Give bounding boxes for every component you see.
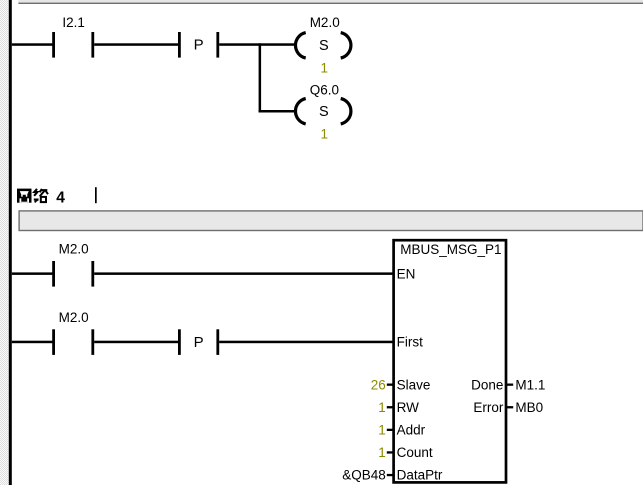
- svg-text:DataPtr: DataPtr: [397, 468, 443, 483]
- svg-text:S: S: [319, 104, 329, 120]
- svg-text:Done: Done: [471, 377, 503, 392]
- svg-text:1: 1: [378, 423, 386, 438]
- wire: contact I2.1 to contact P: [94, 43, 179, 46]
- svg-text:Slave: Slave: [397, 377, 431, 392]
- text cursor: [95, 187, 97, 203]
- svg-text:M2.0: M2.0: [310, 15, 340, 30]
- svg-text:First: First: [397, 335, 423, 350]
- wire: contact M2.0 to contact P (First row): [94, 341, 179, 344]
- svg-text:S: S: [319, 38, 329, 54]
- wire: contact P to coil M2.0: [219, 43, 295, 46]
- pin Error tick: [507, 406, 513, 408]
- contact P (positive edge): [178, 32, 219, 58]
- svg-text:&QB48: &QB48: [342, 468, 386, 483]
- contact P (First row): [178, 329, 219, 355]
- contact M2.0 (First row): [52, 329, 94, 355]
- function box MBUS_MSG_P1: [394, 240, 506, 482]
- svg-text:M2.0: M2.0: [59, 242, 89, 257]
- svg-text:MBUS_MSG_P1: MBUS_MSG_P1: [400, 242, 501, 257]
- editor left margin (dithered): [0, 0, 9, 485]
- branch wire to coil Q6.0: [259, 110, 296, 113]
- network title glyph 络: [34, 189, 48, 203]
- contact I2.1 (normally open): [52, 32, 94, 58]
- svg-text:1: 1: [320, 61, 328, 76]
- network 4 comment bar: [19, 211, 643, 231]
- wire: contact M2.0 to box EN: [94, 272, 393, 275]
- svg-text:RW: RW: [397, 400, 420, 415]
- network 3 separator bar (bottom sliver at top edge): [18, 0, 643, 4]
- contact M2.0 (EN row): [52, 261, 94, 287]
- wire: contact P to box First: [219, 341, 393, 344]
- svg-text:MB0: MB0: [515, 400, 543, 415]
- svg-text:M1.1: M1.1: [515, 377, 545, 392]
- wire: rail to contact I2.1: [12, 43, 53, 46]
- wire: rail to contact M2.0 (First row): [12, 341, 53, 344]
- pin Count tick: [387, 451, 394, 453]
- svg-text:M2.0: M2.0: [59, 310, 89, 325]
- branch junction vertical wire: [259, 43, 262, 112]
- svg-text:Q6.0: Q6.0: [310, 83, 339, 98]
- coil S M2.0: [295, 33, 350, 58]
- wire: rail to contact M2.0 (EN row): [12, 272, 53, 275]
- pin Addr tick: [387, 429, 394, 431]
- svg-text:Count: Count: [397, 445, 433, 460]
- svg-text:P: P: [194, 334, 204, 351]
- left power rail: [9, 0, 12, 485]
- pin Slave tick: [387, 384, 394, 386]
- svg-text:Error: Error: [473, 400, 504, 415]
- coil S Q6.0: [295, 99, 350, 124]
- network title glyph 网: [17, 189, 32, 203]
- pin RW tick: [387, 406, 394, 408]
- svg-text:1: 1: [378, 445, 386, 460]
- svg-text:Addr: Addr: [397, 423, 426, 438]
- svg-text:I2.1: I2.1: [62, 15, 85, 30]
- pin DataPtr tick: [387, 474, 394, 476]
- svg-text:4: 4: [56, 190, 65, 207]
- svg-text:1: 1: [320, 127, 328, 142]
- svg-text:EN: EN: [397, 266, 416, 281]
- pin Done tick: [507, 384, 513, 386]
- svg-text:1: 1: [378, 400, 386, 415]
- svg-text:26: 26: [371, 377, 386, 392]
- svg-text:P: P: [194, 37, 204, 54]
